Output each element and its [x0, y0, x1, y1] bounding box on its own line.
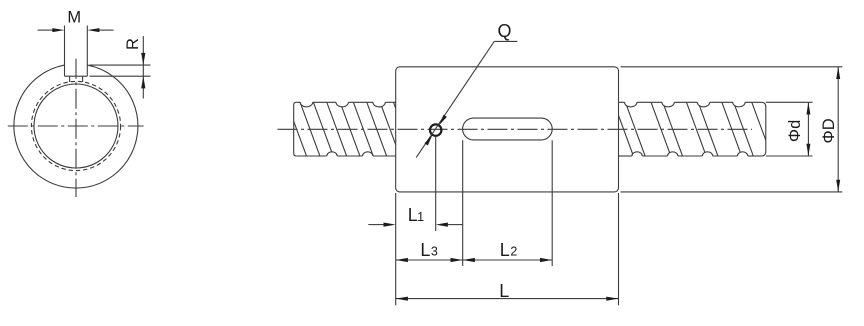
dimension Phi-d extension lines	[766, 102, 813, 156]
dimension L	[396, 297, 619, 301]
shaft horizontal centerline	[278, 128, 753, 130]
extension line at nut left edge	[395, 193, 397, 305]
label L3	[420, 240, 437, 260]
label R	[124, 38, 142, 50]
leader line for Q with arrows	[416, 41, 517, 157]
extension line at Q hole center	[435, 136, 437, 231]
svg-text:ΦD: ΦD	[820, 118, 838, 143]
keyway slot in nut (oblong)	[463, 118, 553, 140]
left view horizontal centerline	[8, 125, 144, 127]
ball track circle (dashed)	[31, 81, 120, 170]
dimension L1	[368, 223, 462, 227]
dimension L3	[396, 258, 463, 262]
dimension Phi-D extension lines	[621, 67, 843, 192]
extension line at slot left end	[462, 140, 464, 266]
dimension Phi-D line with arrows	[836, 67, 840, 192]
svg-text:M: M	[67, 8, 81, 26]
svg-text:L: L	[500, 240, 510, 260]
dimension M extension arrows and line	[38, 28, 114, 32]
dimension Phi-d line with arrows	[806, 102, 810, 156]
bore circle (solid)	[34, 84, 118, 168]
extension line at nut right edge	[618, 193, 620, 305]
keyway notch in outer ring	[65, 26, 88, 77]
dimension R line with arrows	[141, 36, 145, 99]
label L2	[500, 240, 518, 260]
screw shaft thread, left segment	[287, 102, 414, 156]
svg-text:1: 1	[417, 210, 424, 224]
ball nut body	[396, 67, 619, 192]
label Phi-D	[820, 118, 838, 143]
inner keyway slot to bore	[70, 76, 83, 82]
svg-text:L: L	[499, 281, 509, 301]
label Q	[497, 21, 511, 41]
dimension L2	[463, 258, 553, 262]
svg-text:3: 3	[431, 245, 438, 259]
left view vertical centerline	[75, 59, 77, 197]
oil hole Q (bold circle)	[430, 124, 441, 135]
label Phi-d	[786, 120, 804, 142]
svg-text:Q: Q	[497, 21, 511, 41]
screw shaft thread, right segment	[614, 102, 772, 156]
svg-text:R: R	[124, 38, 142, 50]
label M	[67, 8, 81, 26]
dimension R extension lines	[90, 65, 151, 76]
svg-text:L: L	[420, 240, 430, 260]
label L	[499, 281, 509, 301]
svg-text:2: 2	[510, 245, 517, 259]
label L1	[408, 205, 424, 225]
extension line at slot right end	[551, 140, 553, 266]
outer ring of wiper/spacer (left section view)	[14, 65, 138, 188]
svg-text:Φd: Φd	[786, 120, 804, 142]
